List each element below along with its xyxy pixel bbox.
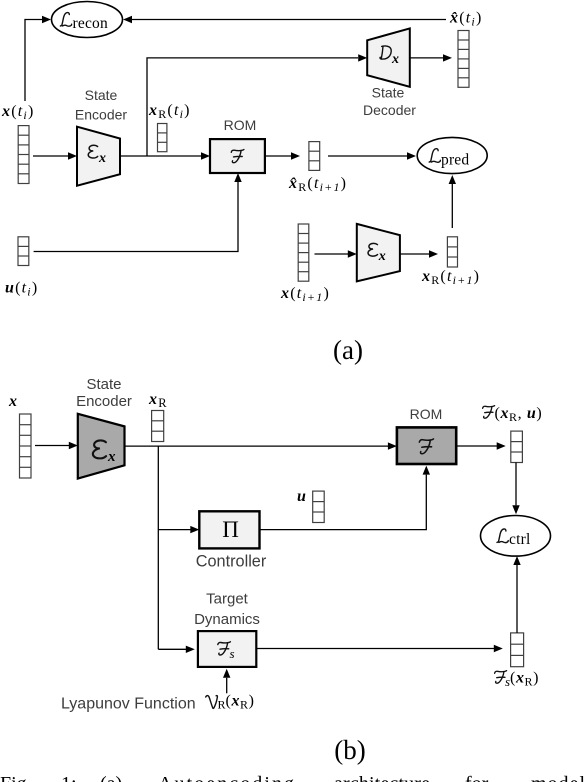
wire controller to ROM (b) bottom: [260, 466, 431, 530]
trunk wire down from x_R junction: [157, 446, 159, 649]
svg-text:Encoder: Encoder: [75, 107, 127, 123]
vector x_R(t_i): [158, 124, 167, 152]
svg-text:(a): (a): [100, 773, 122, 782]
label State Encoder (a): [75, 87, 127, 123]
svg-text:ctrl: ctrl: [509, 531, 530, 548]
ellipse L_ctrl: [481, 516, 551, 557]
target dynamics box F_s: [198, 631, 256, 667]
svg-text:Target: Target: [206, 591, 249, 608]
ROM box F (a): [210, 139, 265, 173]
svg-text:State: State: [372, 85, 405, 101]
svg-text:1:: 1:: [61, 773, 77, 782]
arrow trunk to target dynamics: [158, 646, 195, 653]
svg-text:u(ti): u(ti): [5, 280, 38, 299]
ROM box F (b) gray: [397, 427, 456, 464]
svg-text:x: x: [98, 151, 106, 166]
wire encoder (b) to ROM (b): [125, 442, 397, 449]
arrow x_R(t_i+1) up to L_pred: [449, 175, 456, 228]
svg-text:State: State: [85, 87, 118, 103]
vector x_R(t_i+1): [447, 237, 457, 267]
label F(x_R, u): [483, 406, 495, 419]
label State Decoder: [363, 85, 416, 119]
svg-text:architecture: architecture: [334, 773, 430, 782]
vector x (b): [20, 414, 32, 478]
arrow V_R up into F_s box: [223, 669, 230, 694]
state decoder trapezoid D_x: [367, 28, 410, 86]
state encoder 2 (a) trapezoid E_x: [357, 224, 400, 282]
arrow encoder 2 to x_R(t_i+1) vector: [400, 250, 438, 257]
svg-text:u: u: [297, 488, 307, 505]
vector F_s(x_R): [511, 633, 524, 667]
wire from x(t_i) up to L_recon with arrowhead: [25, 16, 51, 101]
arrow decoder to xhat(t_i) vector: [410, 54, 452, 61]
vector x_R (b): [152, 411, 164, 442]
svg-text:s: s: [230, 646, 235, 661]
svg-text:xR(ti): xR(ti): [148, 102, 191, 121]
vector xhat_R(t_i+1): [309, 142, 320, 171]
svg-text:x: x: [8, 393, 18, 410]
svg-text:(xR, u): (xR, u): [495, 405, 543, 424]
arrow F(x_R,u) vector down to L_ctrl: [512, 463, 519, 515]
arrow F_s(x_R) vector up to L_ctrl: [513, 556, 520, 633]
svg-text:Controller: Controller: [196, 553, 267, 571]
svg-text:Encoder: Encoder: [76, 393, 132, 410]
svg-text:(a): (a): [333, 335, 363, 365]
svg-text:Autoencoding: Autoencoding: [158, 773, 294, 782]
label V_R(x_R): [206, 696, 218, 709]
svg-text:Decoder: Decoder: [363, 102, 416, 118]
svg-text:x: x: [378, 249, 386, 264]
svg-text:model: model: [531, 773, 584, 782]
vector x(t_i+1): [298, 224, 309, 281]
ellipse L_recon: [52, 2, 123, 38]
arrow x vector to encoder (b): [35, 442, 78, 449]
svg-text:x̂(ti): x̂(ti): [449, 10, 482, 29]
svg-text:Lyapunov Function: Lyapunov Function: [61, 696, 196, 713]
label State Encoder (b): [76, 376, 132, 410]
state encoder (b) trapezoid E_x gray: [78, 414, 125, 479]
svg-text:x(ti): x(ti): [1, 103, 34, 122]
arrow ROM (b) to F(x_R,u) vector: [456, 442, 506, 449]
svg-text:State: State: [86, 376, 121, 393]
label F_s(x_R): [495, 671, 507, 684]
svg-text:Dynamics: Dynamics: [194, 611, 260, 628]
svg-text:ROM: ROM: [224, 117, 257, 133]
svg-text:for: for: [465, 773, 489, 782]
wire xhat_R vector to L_pred: [328, 152, 416, 159]
label Target Dynamics: [194, 591, 260, 629]
vector u (b): [313, 491, 325, 522]
arrow x(t_i) vector to state encoder: [33, 152, 77, 159]
svg-text:pred: pred: [441, 152, 469, 169]
wire F_s to F_s(x_R) vector: [256, 645, 503, 652]
svg-text:ROM: ROM: [410, 406, 443, 422]
svg-text:x: x: [391, 52, 399, 67]
controller box Pi: [199, 511, 259, 548]
arrow trunk to controller: [158, 526, 199, 533]
svg-text:Fig.: Fig.: [0, 773, 32, 782]
vector x(t_i): [18, 126, 29, 184]
vector F(x_R,u): [511, 431, 523, 462]
vector u(t_i): [18, 237, 29, 266]
svg-text:(b): (b): [334, 735, 365, 765]
vector xhat(t_i): [458, 31, 469, 88]
caption Fig. 1: [0, 773, 584, 782]
arrow ROM to xhat_R vector: [265, 152, 300, 159]
svg-text:Π: Π: [222, 517, 239, 542]
state encoder (a) trapezoid E_x: [77, 127, 120, 186]
svg-text:x: x: [107, 449, 116, 465]
svg-text:recon: recon: [73, 15, 108, 32]
wire state encoder to ROM: [120, 152, 210, 159]
svg-text:R: R: [218, 698, 226, 712]
wire u(t_i) to ROM bottom: [34, 173, 242, 252]
wire from xhat(t_i) label to L_recon with arrowhead: [123, 16, 446, 23]
wire junction up to state decoder: [147, 54, 367, 156]
arrow x(t_i+1) to encoder 2: [315, 250, 357, 257]
ellipse L_pred: [417, 137, 487, 173]
